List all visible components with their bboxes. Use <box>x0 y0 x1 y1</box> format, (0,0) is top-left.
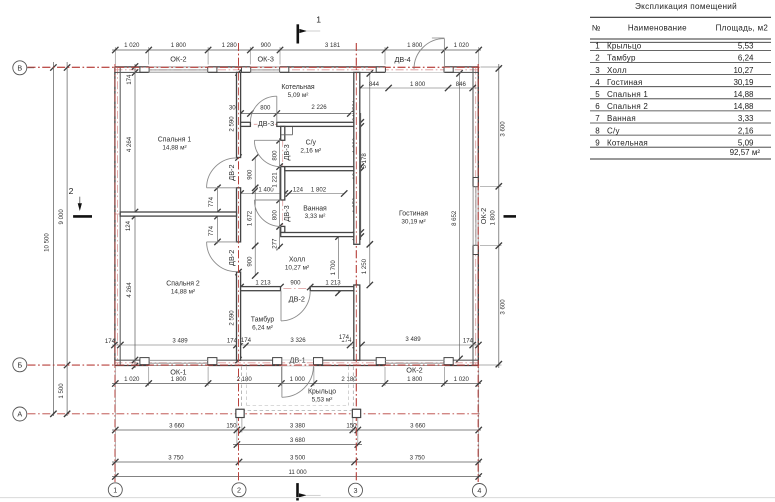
svg-text:1 500: 1 500 <box>58 383 65 399</box>
tick living left chain <box>367 241 373 247</box>
tick bottom row 4 <box>236 459 242 465</box>
tick wc doors chain <box>276 163 282 169</box>
tick central partition chain <box>235 269 241 275</box>
tick left 9000 <box>64 362 70 368</box>
door ДВ-2 bedroom1 leaf and arc <box>207 187 237 189</box>
jamb box bottom wall left <box>140 358 149 365</box>
svg-text:1 213: 1 213 <box>325 279 341 286</box>
svg-text:4: 4 <box>595 78 600 87</box>
porch column right overlay <box>352 409 360 417</box>
section mark 1 bottom <box>296 483 299 500</box>
svg-text:8 652: 8 652 <box>451 210 458 226</box>
jamb box right wall lower <box>473 245 478 254</box>
tick 844 chain <box>357 85 363 91</box>
svg-text:ОК-2: ОК-2 <box>406 365 422 374</box>
door ДВ-4 leaf and swing arc <box>443 39 445 73</box>
svg-text:С/у: С/у <box>607 126 620 135</box>
svg-text:7: 7 <box>595 114 600 123</box>
bottom wall segment 2 <box>208 365 281 367</box>
dimension line left 9000 <box>66 62 68 416</box>
dimension line boiler chain <box>238 113 356 115</box>
section mark 1 top <box>296 24 299 43</box>
tick top row <box>382 47 388 53</box>
svg-text:1: 1 <box>316 14 321 24</box>
svg-text:124: 124 <box>125 220 132 231</box>
tick bottom row 2 <box>234 427 240 433</box>
tick 900 sp1 a <box>252 154 258 160</box>
tick bottom row 1 <box>441 380 447 386</box>
jamb box bottom wall right <box>208 358 217 365</box>
top wall segment 4 <box>444 66 478 68</box>
dimension line top row <box>112 49 481 51</box>
svg-text:2 590: 2 590 <box>229 116 236 132</box>
tick bottom row 1 <box>476 380 482 386</box>
svg-text:Тамбур: Тамбур <box>251 316 275 324</box>
tick interior bottom chain <box>237 342 243 348</box>
svg-text:Ванная: Ванная <box>303 206 327 213</box>
right exterior wall upper <box>477 67 479 186</box>
tambour top wall left <box>241 287 281 291</box>
svg-text:3 750: 3 750 <box>410 455 426 462</box>
tick interior left chain <box>132 213 138 219</box>
s/u bottom wall <box>285 167 354 171</box>
svg-text:3 660: 3 660 <box>169 423 185 430</box>
door ДВ-2 bedroom2 leaf and arc <box>207 241 237 243</box>
svg-text:5,09 м²: 5,09 м² <box>288 92 309 99</box>
porch column left <box>236 409 244 417</box>
tick bottom row 2 <box>355 427 361 433</box>
tick 1400 a <box>237 190 243 196</box>
svg-text:Гостиная: Гостиная <box>607 78 643 87</box>
axis line 1 (vertical red) <box>114 64 116 482</box>
dimension line 1700 <box>338 237 340 293</box>
extension lines bottom row 1 <box>114 367 116 386</box>
tick 900 sp1 b <box>252 185 258 191</box>
tick tambour door chain <box>237 284 243 290</box>
svg-text:С/у: С/у <box>306 140 317 147</box>
svg-text:174: 174 <box>463 338 474 345</box>
window ОК-3 top <box>250 66 280 68</box>
svg-text:14,88: 14,88 <box>733 102 754 111</box>
svg-text:ДВ-3: ДВ-3 <box>282 205 291 221</box>
tick 1400 b <box>282 190 288 196</box>
svg-text:2 180: 2 180 <box>341 376 357 383</box>
svg-text:3: 3 <box>595 66 600 75</box>
axis line 3 (vertical red) <box>355 43 357 482</box>
wall centerline bath bottom <box>281 234 354 236</box>
dimension line bottom row 4 <box>112 461 481 463</box>
svg-text:6,24: 6,24 <box>738 54 754 63</box>
svg-text:Спальня 2: Спальня 2 <box>166 281 200 288</box>
svg-text:92,57 м²: 92,57 м² <box>730 148 761 157</box>
wall centerline right <box>475 67 477 367</box>
svg-text:4: 4 <box>477 486 481 495</box>
svg-text:1 802: 1 802 <box>311 186 327 193</box>
svg-text:900: 900 <box>247 256 254 267</box>
dimension line interior bottom tambour <box>240 344 356 346</box>
tick 8652 a <box>456 70 462 76</box>
tick top row <box>441 47 447 53</box>
dimension line bottom row 2 <box>112 429 481 431</box>
svg-text:11 000: 11 000 <box>289 469 308 476</box>
svg-text:900: 900 <box>261 42 272 49</box>
svg-text:1 800: 1 800 <box>407 376 423 383</box>
extension lines right dimension chain <box>480 185 502 187</box>
svg-text:14,88 м²: 14,88 м² <box>162 145 186 152</box>
axis bubble 4 <box>472 484 486 498</box>
svg-text:ДВ-4: ДВ-4 <box>394 55 410 64</box>
svg-text:5,09: 5,09 <box>738 138 754 147</box>
svg-text:5: 5 <box>595 90 600 99</box>
tick right chain <box>496 183 502 189</box>
axis line 4 overlay <box>477 64 479 482</box>
wall centerline bottom <box>114 362 478 364</box>
svg-text:30,19 м²: 30,19 м² <box>401 219 425 226</box>
dimension line left 10500 <box>52 62 54 416</box>
tick bottom row 1 <box>382 380 388 386</box>
threshold ДВ-1 <box>281 359 314 361</box>
tick interior bottom chain <box>111 342 117 348</box>
svg-text:3 326: 3 326 <box>290 337 306 344</box>
tick right column chain <box>358 123 364 129</box>
svg-text:174: 174 <box>126 74 133 85</box>
tick top row <box>205 47 211 53</box>
section mark 2 right <box>504 215 517 218</box>
tick boiler chain <box>274 110 280 116</box>
bedroom partition <box>120 212 236 216</box>
bottom wall segment 1 <box>114 365 148 367</box>
jamb box bottom wall right <box>444 358 453 365</box>
svg-text:6,24 м²: 6,24 м² <box>252 325 273 332</box>
svg-text:1 280: 1 280 <box>222 42 238 49</box>
tick bottom row 4 <box>351 459 357 465</box>
window ОК-1 bottom <box>149 359 208 361</box>
tick tambour door chain <box>277 284 283 290</box>
tick bottom row 1 <box>311 380 317 386</box>
svg-text:3 181: 3 181 <box>325 42 341 49</box>
tick 1400 c <box>286 190 292 196</box>
svg-text:150: 150 <box>226 423 237 430</box>
svg-text:844: 844 <box>369 81 380 88</box>
dimension line bottom row 1 <box>112 383 481 385</box>
svg-text:774: 774 <box>208 225 215 236</box>
tick bottom row 1 <box>146 380 152 386</box>
bathroom bottom wall <box>281 233 354 237</box>
dimension line 900 sp1 <box>254 158 256 188</box>
svg-text:5 178: 5 178 <box>361 153 368 169</box>
tick boiler chain <box>237 110 243 116</box>
tick hall chain <box>252 243 258 249</box>
bottom wall segment 4 <box>444 365 478 367</box>
svg-text:Тамбур: Тамбур <box>607 54 636 63</box>
tick interior left chain <box>132 63 138 69</box>
svg-text:14,88 м²: 14,88 м² <box>171 289 195 296</box>
tick central partition chain <box>235 357 241 363</box>
dimension line living left chain <box>369 72 371 286</box>
window ОК-2 bottom <box>385 359 444 361</box>
svg-text:846: 846 <box>456 81 467 88</box>
svg-text:10,27 м²: 10,27 м² <box>285 265 309 272</box>
svg-text:3 380: 3 380 <box>290 423 306 430</box>
axis line А (horizontal red dash-dot) <box>28 413 482 415</box>
boiler room bottom wall right <box>277 122 354 126</box>
dimension line bottom row 3 <box>233 444 362 446</box>
door ДВ-3 bathroom leaf and arc <box>254 199 280 201</box>
wall centerline s/u bottom <box>281 168 354 170</box>
svg-text:1 221: 1 221 <box>271 172 278 188</box>
window ОК-2 right <box>472 186 474 245</box>
tick left 10500 <box>50 411 56 417</box>
duct niche step <box>281 134 293 136</box>
tick bottom row 2 <box>476 427 482 433</box>
threshold ДВ-4 <box>385 72 444 74</box>
svg-text:Котельная: Котельная <box>607 138 648 147</box>
dimension line 774 chain <box>217 186 219 244</box>
svg-text:10 500: 10 500 <box>44 233 51 252</box>
svg-text:Площадь, м2: Площадь, м2 <box>716 24 769 33</box>
svg-text:Холл: Холл <box>607 66 627 75</box>
tick wc doors chain <box>276 244 282 250</box>
jamb box right wall upper <box>473 178 478 187</box>
tick right chain <box>496 65 502 71</box>
dimension line 844 chain <box>358 87 478 89</box>
svg-text:1 250: 1 250 <box>361 258 368 274</box>
svg-text:2 180: 2 180 <box>237 376 253 383</box>
tick wc doors chain <box>276 197 282 203</box>
svg-text:2: 2 <box>237 485 241 494</box>
svg-text:124: 124 <box>293 186 304 193</box>
tick 1700 a <box>335 233 341 239</box>
tick living left chain <box>367 282 373 288</box>
svg-text:1: 1 <box>113 485 117 494</box>
svg-text:3 600: 3 600 <box>500 299 507 315</box>
tick 844 chain <box>445 85 451 91</box>
axis bubble В <box>13 61 27 75</box>
porch column right <box>352 409 360 417</box>
svg-text:800: 800 <box>260 105 271 112</box>
axis line В (horizontal red dash-dot) <box>28 66 482 68</box>
tick top row <box>112 47 118 53</box>
axis line Б (horizontal red dash-dot) <box>28 364 482 366</box>
svg-text:3 489: 3 489 <box>172 338 188 345</box>
svg-text:1 020: 1 020 <box>124 376 140 383</box>
svg-text:Крыльцо: Крыльцо <box>607 42 642 51</box>
svg-text:3,33 м²: 3,33 м² <box>305 213 326 220</box>
svg-text:8: 8 <box>595 126 600 135</box>
svg-text:2 226: 2 226 <box>311 104 327 111</box>
svg-text:1 700: 1 700 <box>330 260 337 276</box>
svg-text:Спальня 1: Спальня 1 <box>158 137 192 144</box>
dimension line interior left chain <box>134 64 136 368</box>
s/u left wall upper <box>281 126 285 140</box>
svg-text:2: 2 <box>595 54 600 63</box>
tick boiler chain <box>347 110 353 116</box>
svg-text:Гостиная: Гостиная <box>399 211 428 218</box>
tick central partition chain <box>235 69 241 75</box>
svg-text:2,16 м²: 2,16 м² <box>300 148 321 155</box>
svg-text:9: 9 <box>595 138 600 147</box>
axis В leader <box>27 67 34 69</box>
central partition lower <box>237 272 241 360</box>
svg-text:1 800: 1 800 <box>171 42 187 49</box>
tick tambour door chain <box>307 284 313 290</box>
tick right column chain <box>358 229 364 235</box>
tick hall chain <box>252 187 258 193</box>
svg-text:9 000: 9 000 <box>58 209 65 225</box>
svg-text:1 800: 1 800 <box>171 376 187 383</box>
jamb box bottom wall left <box>273 358 282 365</box>
svg-text:ДВ-3: ДВ-3 <box>258 119 274 128</box>
boiler room bottom wall left stub <box>241 122 251 126</box>
axis line 3 overlay <box>355 43 357 482</box>
tick wc doors chain <box>276 137 282 143</box>
wall centerline boiler bottom <box>239 123 356 125</box>
svg-text:Экспликация помещений: Экспликация помещений <box>635 2 737 11</box>
svg-text:900: 900 <box>290 279 301 286</box>
tick right column chain <box>358 119 364 125</box>
axis line 4 (vertical red) <box>477 64 479 482</box>
tick bottom row 3 left <box>234 441 240 447</box>
tick 774 chain <box>214 185 220 191</box>
tick 8652 b <box>456 356 462 362</box>
svg-text:ОК-2: ОК-2 <box>479 208 488 224</box>
svg-text:1 800: 1 800 <box>410 81 426 88</box>
svg-text:№: № <box>592 24 601 33</box>
s/u left wall lower <box>281 226 285 232</box>
axis bubble А <box>13 407 27 421</box>
extension lines bottom rows <box>114 386 116 479</box>
porch outline dashed <box>241 367 243 411</box>
svg-text:3: 3 <box>354 486 358 495</box>
dimension line bottom row 5 <box>112 476 481 478</box>
dimension line hall chain <box>254 191 256 276</box>
svg-text:4 264: 4 264 <box>126 136 133 152</box>
tick interior bottom chain <box>347 342 353 348</box>
tick 774 chain <box>214 209 220 215</box>
svg-text:ДВ-2: ДВ-2 <box>289 294 305 303</box>
tick interior left chain <box>132 357 138 363</box>
tick 1400 d <box>341 190 347 196</box>
wall centerline s/u left <box>282 124 284 234</box>
tick right column chain <box>358 168 364 174</box>
wall centerline left <box>117 67 119 367</box>
axis line 2 (vertical red) <box>238 43 240 482</box>
tick bottom row 1 <box>112 380 118 386</box>
svg-text:174: 174 <box>339 334 350 341</box>
tick living left chain <box>367 70 373 76</box>
tick interior bottom chain <box>243 342 249 348</box>
tick bottom row 1 <box>205 380 211 386</box>
axis bubble Б <box>13 358 27 372</box>
svg-text:2: 2 <box>69 186 74 196</box>
tick top row <box>247 47 253 53</box>
svg-text:1 020: 1 020 <box>454 376 470 383</box>
wall centerline bedroom partition <box>114 213 240 215</box>
page edge faint line <box>0 497 775 499</box>
tick bottom row 2 <box>350 427 356 433</box>
tick bottom row 4 <box>476 459 482 465</box>
dimension line 1400 <box>241 193 345 195</box>
svg-text:1 213: 1 213 <box>255 279 271 286</box>
axis line 2 overlay <box>238 43 240 482</box>
svg-text:ОК-2: ОК-2 <box>170 54 186 63</box>
svg-text:900: 900 <box>247 169 254 180</box>
svg-text:ДВ-2: ДВ-2 <box>227 250 236 266</box>
tick interior bottom chain <box>475 342 481 348</box>
axis line 1 overlay <box>114 64 116 482</box>
tick interior bottom chain <box>233 342 239 348</box>
jamb box bottom wall right <box>314 358 323 365</box>
svg-text:14,88: 14,88 <box>733 90 754 99</box>
axis-3 wall lower <box>354 285 360 360</box>
jamb box top wall left <box>140 67 149 72</box>
tick 1700 b <box>335 290 341 296</box>
tick bottom row 4 <box>112 459 118 465</box>
axis bubble 1 <box>108 483 122 497</box>
tick right column chain <box>358 233 364 239</box>
svg-text:3 660: 3 660 <box>410 423 426 430</box>
svg-text:800: 800 <box>271 150 278 161</box>
svg-text:Спальня 1: Спальня 1 <box>607 90 648 99</box>
axis bubble 2 <box>232 483 246 497</box>
jamb box top wall left <box>376 67 385 72</box>
svg-text:1 672: 1 672 <box>247 210 254 226</box>
svg-text:3 600: 3 600 <box>500 121 507 137</box>
axis line Б overlay <box>28 364 482 366</box>
svg-text:150: 150 <box>346 423 357 430</box>
tick bottom row 5 right <box>476 473 482 479</box>
top wall segment 1 <box>114 66 148 68</box>
svg-text:277: 277 <box>271 238 278 249</box>
tick boiler chain <box>247 110 253 116</box>
svg-text:174: 174 <box>241 337 252 344</box>
axis line В overlay <box>28 66 482 68</box>
bottom wall segment 3 <box>314 365 385 367</box>
top wall segment 2 <box>208 66 250 68</box>
jamb box bottom wall left <box>376 358 385 365</box>
svg-text:А: А <box>17 410 22 419</box>
tick interior left chain <box>132 69 138 75</box>
svg-text:3 750: 3 750 <box>168 455 184 462</box>
svg-text:2,16: 2,16 <box>738 126 754 135</box>
s/u left wall middle <box>281 167 285 200</box>
central partition upper <box>237 72 241 157</box>
tick bottom row 3 right <box>355 441 361 447</box>
tick tambour door chain <box>351 284 357 290</box>
tick interior bottom chain <box>117 342 123 348</box>
svg-text:1 800: 1 800 <box>407 42 423 49</box>
svg-text:1 020: 1 020 <box>454 42 470 49</box>
tick interior left chain <box>132 363 138 369</box>
door ДВ-1 leaf and swing arc <box>281 366 283 397</box>
tick interior bottom chain <box>353 342 359 348</box>
tick interior bottom chain <box>470 342 476 348</box>
tick wc doors chain <box>276 223 282 229</box>
dimension line interior bottom living <box>359 344 479 346</box>
svg-text:5,53: 5,53 <box>738 42 754 51</box>
svg-text:5,53 м²: 5,53 м² <box>312 397 333 404</box>
tick left 10500 <box>50 64 56 70</box>
svg-text:ОК-3: ОК-3 <box>257 54 273 63</box>
svg-text:1 800: 1 800 <box>490 210 497 226</box>
tick bottom row 2 <box>112 427 118 433</box>
jamb box top wall left <box>242 67 251 72</box>
tick bottom row 5 left <box>112 473 118 479</box>
svg-text:Холл: Холл <box>289 257 305 264</box>
dimension line wc doors chain <box>279 138 281 249</box>
svg-text:6: 6 <box>595 102 600 111</box>
tick bottom row 2 <box>239 427 245 433</box>
